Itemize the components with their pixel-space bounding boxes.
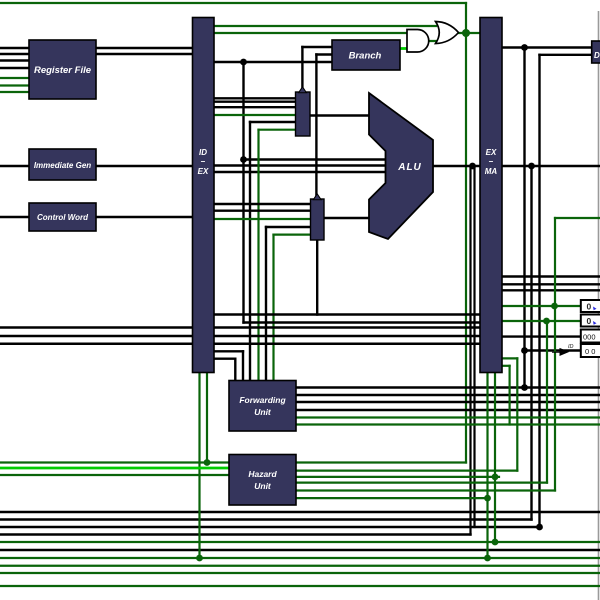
wire hazard in bright: [0, 467, 229, 470]
wire alu tap1 return: [0, 533, 471, 535]
wire pc-taken top run: [0, 2, 466, 4]
node wdata join: [536, 524, 543, 531]
wire exma out m3: [502, 289, 600, 291]
wire hazard s6 (green): [296, 497, 488, 499]
wire wb green 1: [0, 541, 600, 543]
data memory (clipped): [592, 41, 600, 63]
wire exma to hazard b (green): [502, 357, 517, 359]
wire wb green 3: [0, 565, 600, 567]
wire regfile in addr2: [0, 67, 29, 69]
pipeline register EX/MA: [480, 18, 502, 373]
wire hazard s4 riser: [546, 321, 548, 483]
node exma out tap: [521, 44, 528, 51]
wire regfile in rs1: [0, 47, 29, 49]
wire fu bundle green 2: [296, 423, 600, 425]
wire hazard in 3 (green): [0, 474, 229, 476]
wire wb green 2: [0, 557, 600, 559]
mux M1 (op1 forward select): [296, 92, 311, 136]
node s6 tap: [484, 495, 491, 502]
wire mux2 in b: [214, 209, 311, 211]
node green down1 tap: [204, 459, 211, 466]
wire id/ex down green 1: [198, 373, 200, 559]
wire regfile wr-en (green): [0, 77, 29, 79]
svg-text:0 0: 0 0: [585, 347, 595, 356]
svg-text:0: 0: [587, 302, 592, 312]
node exma green2 wb tap: [492, 539, 499, 546]
node reg0 tap: [551, 303, 558, 310]
wire or gate output (green): [458, 32, 481, 34]
wire exma to reg0 (green): [502, 305, 581, 307]
wire hazard s3 riser: [516, 358, 518, 470]
wire mux2-tap return h: [214, 313, 480, 315]
svg-text:Unit: Unit: [254, 481, 272, 491]
wire lower ret line e: [0, 549, 600, 551]
wire regfile out1 to ID/EX: [96, 47, 193, 49]
wire regfile wr-idx (green): [0, 84, 29, 86]
wire mux2 out to ALU op2: [324, 217, 369, 219]
mux M2 select arrow: [313, 194, 321, 200]
wire hazard s5 riser: [554, 218, 556, 491]
AND gate G1: [407, 30, 429, 53]
wire lower ret line c: [0, 526, 540, 528]
node exma green1 wb tap: [484, 555, 491, 562]
node s3 tap: [492, 474, 499, 481]
pipeline register ID/EX: [193, 18, 215, 373]
wire fu bundle green 1: [296, 416, 600, 418]
wire immgen input: [0, 165, 29, 167]
wire mux2-tap vertical: [316, 240, 318, 315]
node alu-notch tap: [240, 156, 247, 163]
svg-text:EX: EX: [198, 167, 209, 176]
wire pc-taken vertical drop: [465, 3, 467, 33]
wire ctrlword out to ID/EX: [96, 216, 193, 218]
svg-text:Immediate Gen: Immediate Gen: [34, 161, 91, 170]
immediate generator: [29, 149, 96, 180]
control word unit: [29, 203, 96, 231]
wire hazard in 1 (green): [0, 461, 229, 463]
wire fu bundle 4: [296, 409, 600, 411]
wire exma out m2: [502, 283, 600, 285]
ALU U1: [369, 93, 433, 239]
mem port box R1: [581, 315, 600, 327]
svg-text:–: –: [201, 157, 206, 166]
wire alu tap2 vertical: [530, 166, 532, 520]
wire exma to reg2: [502, 335, 581, 337]
wire fu bundle 2: [296, 394, 600, 396]
wire and gate output (green): [429, 40, 443, 42]
wire id/ex rs1-idx h: [214, 350, 243, 352]
OR gate G2: [436, 22, 459, 44]
wire alu tap2 return: [0, 518, 532, 520]
wire lower ret line a: [0, 511, 600, 513]
wire exma out to datamem addr: [502, 46, 592, 48]
node or output junction: [462, 29, 470, 37]
wire pass line b: [0, 335, 480, 337]
R3 pointer arrow: [552, 349, 568, 356]
wire id/ex down green 2: [206, 373, 208, 463]
mux M1 select arrow: [299, 87, 307, 93]
wire mux1 in b: [214, 100, 296, 102]
R0 blue marker: [593, 307, 597, 311]
svg-text:Forwarding: Forwarding: [239, 395, 286, 405]
mem port box R0: [581, 300, 600, 312]
mux M2 (op2 forward select): [311, 199, 325, 240]
wire pass line c: [0, 343, 480, 345]
wire datamem wdata elbow h: [540, 54, 592, 56]
svg-text:ID: ID: [199, 148, 207, 157]
wire mux2 fwd-in green horizontal: [274, 234, 311, 236]
wire exma down green 1: [486, 373, 488, 559]
wire mux1 in d (green): [214, 114, 296, 116]
wire mux2 fwd green vertical to FU: [272, 235, 274, 381]
wire mux1 fwd-in horizontal: [250, 121, 296, 123]
node instr split: [240, 59, 247, 66]
mem port box R3: [581, 344, 600, 357]
wire hazard s4 (green): [296, 482, 547, 484]
wire alu tap1 vertical: [469, 166, 471, 535]
forwarding unit: [229, 381, 296, 432]
wire id/ex rs2-idx v: [234, 359, 236, 381]
svg-text:000: 000: [583, 333, 596, 342]
wire datamem wdata elbow v: [538, 55, 540, 527]
wire reg3 wire: [525, 349, 581, 351]
wire immgen out to ID/EX: [96, 165, 193, 167]
wire pass line a: [0, 326, 480, 328]
wire tap to ALU notch upper: [244, 158, 387, 160]
wire branch op1 vertical to mux1: [301, 47, 303, 92]
wire exma to reg1 (green): [502, 320, 581, 322]
node alu result tap1: [469, 163, 476, 170]
svg-text:Control Word: Control Word: [37, 213, 89, 222]
wire mux1 in a: [214, 97, 296, 99]
wire alu tap1b vertical: [473, 166, 475, 527]
wire id/ex ctrl to OR gate (green): [214, 25, 436, 27]
wire exma down green 2: [494, 373, 496, 543]
node green down2 tap: [196, 555, 203, 562]
wire mux1 fwd-in green horizontal: [259, 129, 296, 131]
wire branch op1 horizontal: [302, 46, 332, 48]
wire branch taken (bright green): [400, 47, 407, 50]
svg-text:D: D: [594, 51, 600, 60]
wire mux2 in a: [214, 203, 311, 205]
wire hazard s2 riser: [509, 366, 511, 425]
node reg1 tap: [543, 318, 550, 325]
wire mux1 in c: [214, 106, 296, 108]
svg-text:Register File: Register File: [34, 65, 92, 76]
svg-text:ID: ID: [568, 344, 574, 350]
R1 blue marker: [593, 321, 597, 325]
wire mux2 fwd vertical to FU: [265, 227, 267, 381]
wire mux1 fwd green vertical to FU: [257, 130, 259, 381]
wire wb green 5: [0, 585, 600, 587]
svg-text:ALU: ALU: [397, 162, 422, 173]
wire ctrlword input: [0, 216, 29, 218]
wire regfile out2 to ID/EX: [96, 53, 193, 55]
wire id/ex ctrl to AND gate (green): [214, 32, 407, 34]
wire hazard s2 (green): [296, 470, 517, 472]
component boundary line (grey): [598, 11, 600, 600]
wire regfile wr-data (green): [0, 91, 29, 93]
wire hazard s5 (green): [296, 489, 555, 491]
wire fu bundle 3: [296, 401, 600, 403]
wire instr-tap return h: [244, 321, 481, 323]
svg-text:EX: EX: [486, 148, 497, 157]
svg-text:MA: MA: [485, 167, 498, 176]
wire exma tap vertical: [523, 48, 525, 388]
node alu result tap2: [528, 163, 535, 170]
wire id/ex instr to branch: [214, 61, 332, 63]
wire exma out m1: [502, 275, 600, 277]
register file RF: [29, 40, 96, 99]
wire mux2 fwd-in horizontal: [266, 226, 311, 228]
svg-text:Hazard: Hazard: [248, 469, 277, 479]
wire mem green right: [555, 217, 600, 219]
wire branch op2 vertical to mux2: [315, 55, 317, 200]
hazard unit: [229, 455, 296, 506]
wire regfile in rs2: [0, 53, 29, 55]
wire hazard s1 to or-dot (green): [296, 461, 466, 463]
svg-text:0: 0: [587, 316, 592, 326]
wire branch op2 horizontal: [316, 53, 332, 55]
wire regfile in addr1: [0, 59, 29, 61]
node exma tap join bundle: [521, 384, 528, 391]
branch unit: [332, 40, 400, 70]
wire alu result after EX/MA: [502, 165, 600, 167]
wire hazard s3 (green): [296, 476, 499, 478]
svg-text:Branch: Branch: [349, 51, 382, 62]
svg-text:–: –: [489, 157, 494, 166]
wire id/ex rs1-idx v: [242, 351, 244, 380]
wire id/ex rs2-idx h: [214, 358, 235, 360]
wire alu result to EX/MA: [433, 165, 480, 167]
mem port box R2: [581, 330, 600, 343]
wire mux1 fwd vertical to FU: [249, 122, 251, 381]
wire mux1 out to ALU op1: [310, 114, 369, 116]
wire fu bundle 1: [296, 386, 600, 388]
wire id/ex to ALU notch lower: [214, 171, 386, 173]
wire exma to hazard a (green): [502, 365, 510, 367]
wire wb green 4: [0, 572, 600, 574]
wire or-out vertical down (green): [465, 33, 467, 463]
wire id/ex to ALU notch mid: [214, 164, 386, 166]
svg-text:Unit: Unit: [254, 407, 272, 417]
wire instr tap vertical: [242, 62, 244, 323]
wire mux2 in c (green): [214, 218, 311, 220]
node reg3 tap: [521, 347, 528, 354]
